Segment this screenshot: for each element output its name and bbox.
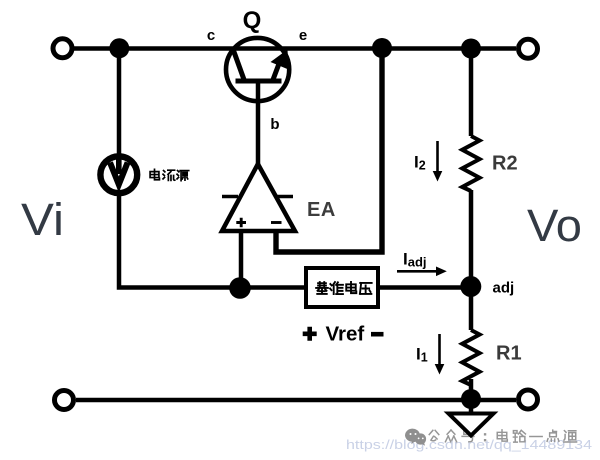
watermark text 公众号：电路一点通 bbox=[429, 430, 576, 442]
transistor Q collector diagonal bbox=[234, 51, 245, 82]
current source bbox=[100, 156, 137, 193]
wire: left branch down from top junction bbox=[117, 49, 122, 157]
svg-text:Vi: Vi bbox=[21, 194, 64, 245]
transistor Q circle bbox=[226, 38, 289, 101]
svg-text:Vo: Vo bbox=[527, 200, 582, 251]
wire: reference box to adj node bbox=[378, 285, 466, 290]
wire: transistor base lead b bbox=[256, 81, 261, 166]
wire: EA + input drop bbox=[239, 229, 244, 288]
svg-text:R2: R2 bbox=[492, 153, 518, 175]
wire: R1 bottom lead bbox=[469, 379, 474, 400]
junction dot adj node bbox=[460, 276, 481, 297]
wire: current source to mid rail corner bbox=[119, 194, 306, 288]
junction dot mid rail bbox=[229, 277, 251, 299]
ground symbol bbox=[449, 414, 494, 436]
junction dot top-right bbox=[461, 39, 481, 59]
label 电流源 bbox=[150, 169, 189, 180]
terminal top-left bbox=[53, 39, 72, 58]
op-amp EA triangle bbox=[222, 164, 295, 231]
junction dot top-left bbox=[109, 38, 129, 58]
wire: EA - input feedback to output node bbox=[276, 49, 382, 253]
watermark wechat icon bbox=[405, 429, 426, 446]
wire: ground stub bbox=[469, 400, 474, 414]
svg-text:b: b bbox=[270, 116, 279, 133]
arrow Iadj bbox=[397, 267, 447, 277]
svg-text:Q: Q bbox=[243, 7, 262, 34]
svg-text:c: c bbox=[207, 27, 215, 44]
terminal bottom-right bbox=[519, 390, 538, 409]
junction dot bottom bbox=[461, 389, 481, 409]
transistor Q base bar bbox=[236, 79, 282, 84]
resistor R1 bbox=[462, 330, 479, 385]
svg-text:e: e bbox=[299, 27, 307, 44]
wire: R2 bottom lead to adj bbox=[469, 190, 474, 287]
bottom wire bbox=[76, 398, 516, 403]
terminal top-right bbox=[519, 39, 538, 58]
wire: R1 top lead bbox=[469, 287, 474, 330]
reference voltage box 基准电压 bbox=[306, 268, 378, 307]
transistor Q emitter diagonal with arrow bbox=[271, 50, 289, 82]
top wire bbox=[74, 46, 516, 51]
svg-text:EA: EA bbox=[307, 199, 336, 221]
junction dot top-mid bbox=[372, 38, 392, 58]
label + Vref - bbox=[303, 323, 384, 346]
svg-text:adj: adj bbox=[493, 280, 515, 297]
wire: R2 top lead bbox=[469, 49, 474, 137]
arrow I1 bbox=[435, 334, 445, 375]
svg-text:R1: R1 bbox=[496, 343, 522, 365]
arrow I2 bbox=[433, 141, 443, 182]
resistor R2 bbox=[462, 136, 479, 191]
terminal bottom-left bbox=[55, 391, 74, 410]
svg-text:Vref: Vref bbox=[326, 323, 365, 346]
